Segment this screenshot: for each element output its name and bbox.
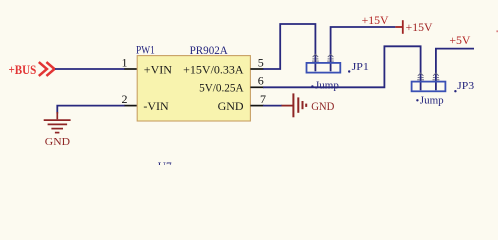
svg-text:6: 6 [258,74,264,88]
svg-text:GND: GND [311,101,334,113]
svg-text:PW1: PW1 [136,43,155,57]
svg-text:2: 2 [122,92,128,106]
JP1 pin 2 direction marks [327,54,334,61]
comment anchor dot Jump (JP3) [416,99,418,101]
port +BUS arrow chevrons [39,62,55,76]
wire pin 7 to GND port [263,105,282,107]
svg-text:JP1: JP1 [352,61,369,73]
power ground symbol (left) [44,112,71,133]
svg-text:-VIN: -VIN [143,99,169,113]
designator anchor dot JP3 [454,90,456,92]
regulator PW1 body [137,56,250,121]
svg-text:Jump: Jump [315,80,339,92]
svg-text:5: 5 [258,55,264,69]
pin 1 of PW1 [125,68,138,70]
wire pin 5 to JP1 pin 1 [263,24,315,71]
svg-text:GND: GND [45,136,70,148]
svg-text:5V/0.25A: 5V/0.25A [199,81,244,95]
designator anchor dot JP1 [348,70,350,72]
wire pin 6 to JP3 pin 1 [263,46,421,90]
wire JP3 pin 2 to +5V [436,49,474,91]
svg-text:Jump: Jump [420,94,444,106]
JP3 pin 1 direction marks [417,73,424,80]
svg-text:+VIN: +VIN [144,63,172,77]
pin 6 of PW1 [250,86,263,88]
power ground symbol (right, horizontal) [282,93,307,117]
svg-text:JP3: JP3 [457,80,475,92]
svg-text:GND: GND [218,99,244,113]
sheet background [0,0,498,165]
power port +15V bar [395,20,402,34]
svg-text:+15V/0.33A: +15V/0.33A [183,62,244,76]
comment anchor dot Jump (JP1) [311,85,313,87]
pin 2 of PW1 [125,105,138,107]
svg-text:7: 7 [260,92,266,106]
svg-text:+15V: +15V [406,22,434,34]
svg-text:+15V: +15V [362,15,390,27]
wire pin 2 to GND riser [57,106,125,114]
JP3 pin 2 direction marks [433,73,440,80]
pin 7 of PW1 [250,105,263,107]
pin 5 of PW1 [250,68,263,70]
svg-text:+5V: +5V [449,35,471,47]
svg-text:+BUS: +BUS [9,63,37,77]
clipped red mark at top right edge [496,30,498,32]
JP1 pin 1 direction marks [312,54,319,61]
svg-text:U7: U7 [158,159,172,165]
jumper JP3 body [412,82,446,92]
svg-text:1: 1 [122,56,128,70]
wire +BUS to pin 1 [55,68,125,70]
wire JP1 pin 2 to +15V [331,27,396,71]
jumper JP1 body [307,63,341,73]
svg-text:PR902A: PR902A [190,43,229,57]
